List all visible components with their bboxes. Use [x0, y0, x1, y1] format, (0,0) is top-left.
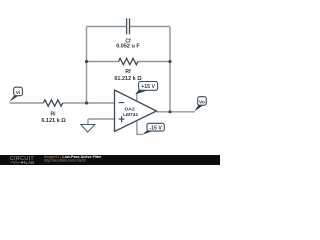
svg-text:Vo: Vo — [199, 99, 205, 105]
svg-text:Ri: Ri — [51, 112, 57, 118]
op-amp inverting minus symbol — [119, 102, 125, 104]
wire +15V power stub — [136, 93, 138, 101]
wire top feedback from left corner to capacitor left plate — [87, 26, 127, 28]
op-amp U OA2 triangle — [115, 90, 157, 132]
svg-text:LM741: LM741 — [123, 112, 139, 118]
node label Vi flag pointer — [9, 95, 18, 102]
svg-text:0.052 u F: 0.052 u F — [116, 44, 140, 50]
power -15V box — [147, 123, 164, 131]
wire left vertical feedback — [86, 27, 88, 104]
junction node Rf left — [85, 60, 88, 63]
resistor Ri zigzag — [43, 100, 63, 106]
power +15V flag pointer — [135, 90, 146, 95]
wire non-inverting input horizontal — [88, 118, 115, 120]
wire Rf branch right segment — [138, 61, 170, 63]
power -15V flag pointer — [142, 131, 152, 135]
power +15V box — [139, 82, 158, 91]
wire -15V power stub — [137, 122, 143, 135]
watermark logo diode glyph — [21, 161, 24, 164]
svg-text:6.121 k Ω: 6.121 k Ω — [41, 118, 66, 124]
wire input from Vi to Ri — [10, 102, 44, 104]
svg-text:LAB: LAB — [26, 160, 35, 165]
capacitor Cf plates — [127, 18, 130, 34]
svg-text:+15 V: +15 V — [141, 84, 155, 90]
svg-text:Vi: Vi — [16, 90, 21, 96]
svg-text:61.212 k Ω: 61.212 k Ω — [114, 76, 142, 82]
svg-text:OA2: OA2 — [125, 107, 135, 113]
watermark logo zigzag — [10, 161, 21, 164]
node label Vo flag pointer — [195, 105, 204, 112]
junction node inverting input — [85, 101, 88, 104]
node label Vi box — [14, 87, 23, 96]
op-amp non-inverting plus symbol — [119, 116, 125, 122]
node label Vo box — [198, 97, 207, 106]
watermark bar — [0, 155, 220, 165]
wire op-amp output — [157, 111, 196, 113]
wire from Ri to inverting input — [63, 102, 115, 104]
junction node output — [168, 110, 171, 113]
svg-text:http://circuitlab.com/c/3e33: http://circuitlab.com/c/3e33 — [44, 159, 86, 163]
resistor Rf zigzag — [119, 58, 139, 64]
svg-text:-15 V: -15 V — [149, 126, 162, 132]
wire from capacitor right plate to top-right corner — [130, 26, 170, 28]
wire right vertical feedback — [169, 27, 171, 112]
svg-text:Rf: Rf — [125, 69, 131, 75]
wire Rf branch left segment — [87, 61, 119, 63]
ground symbol — [81, 125, 95, 133]
junction node Rf right — [168, 60, 171, 63]
wire non-inverting stub down to ground — [87, 119, 89, 125]
